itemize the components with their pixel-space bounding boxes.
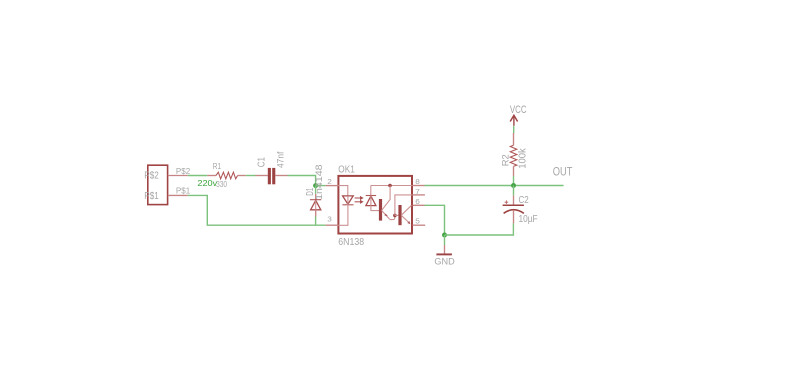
connector pin P$2 lead [168,175,188,177]
resistor R1 [207,172,246,179]
connector pin name P$2 (inside) [144,171,159,182]
capacitor C1 [256,168,288,184]
OK1 internal top rail to pin 8 [371,185,413,187]
OK1 pin 2 lead [326,185,338,187]
svg-text:2: 2 [327,179,332,186]
pin number 8 [415,179,420,186]
pin number 2 [327,179,332,186]
OK1 pin 6 lead [413,204,425,206]
pin number 5 [415,218,420,225]
svg-text:P$2: P$2 [144,171,159,182]
svg-text:47nf: 47nf [276,151,287,168]
svg-text:10µF: 10µF [519,214,538,225]
OK1 internal LED [338,186,354,226]
transistor Q2 [395,205,412,225]
svg-text:OUT: OUT [553,167,573,179]
label C2 [519,195,529,206]
wire P$2 to R1 [188,175,208,177]
pin number 7 [415,189,420,196]
power VCC symbol [510,115,517,126]
wire R2 to OUT node [513,176,515,183]
pin label P$1 [176,186,191,195]
svg-text:5: 5 [415,218,420,225]
label GND [434,256,454,267]
connector pin name P$1 (inside) [144,191,159,202]
label R2 (rotated) [500,154,511,166]
pin number 3 [327,216,332,223]
value 6N138 [338,237,364,248]
svg-text:1n4148: 1n4148 [314,164,324,200]
node B junction dot [442,233,447,238]
label C1 (rotated) [256,157,267,167]
resistor R2 [510,133,517,176]
wire R1 to C1 [246,175,256,177]
value 100k (rotated) [518,148,529,169]
OK1 pin 3 lead [326,224,338,226]
svg-text:GND: GND [434,256,454,267]
OK1 internal base junction dot [393,214,397,218]
node A junction dot [313,183,318,188]
svg-text:7: 7 [415,189,420,196]
svg-text:8: 8 [415,179,420,186]
svg-text:P$1: P$1 [176,186,191,195]
svg-text:R2: R2 [500,154,511,166]
wire node A to OK1 pin2 [316,185,326,187]
svg-text:OK1: OK1 [338,165,355,176]
pin number 6 [415,199,420,206]
pin label P$2 [176,167,191,176]
net label 220v [197,178,218,188]
value 330 [216,179,227,189]
value 10uF [519,214,538,225]
OK1 pin 8 lead [413,185,425,187]
wire P$1 down and along bottom to OK1 pin3 [188,195,326,225]
value 1n4148 (rotated) [314,164,324,200]
label R1 [213,161,221,171]
wire node B to C2 bottom [445,223,514,235]
wire VCC to R2 [513,126,515,133]
svg-text:P$2: P$2 [176,167,191,176]
transistor Q1 [379,186,395,221]
OK1 internal rail junction dot [388,184,392,188]
svg-text:6N138: 6N138 [338,237,364,248]
connector J1 box [148,165,168,204]
OK1 pin 5 lead [413,224,426,226]
wire node C to C2 [513,186,515,196]
wire C1 to node A and down [288,176,316,184]
OK1 internal pin7 line [395,195,412,216]
svg-text:R1: R1 [213,161,221,171]
svg-text:P$1: P$1 [144,191,159,202]
svg-text:3: 3 [327,216,332,223]
optocoupler OK1 box [338,176,412,234]
node C junction dot [511,183,516,188]
wire OK1 pin8 to OUT [425,185,564,187]
svg-text:VCC: VCC [510,104,527,116]
connector pin P$1 lead [168,194,188,196]
value 47nf (rotated) [276,151,287,168]
wire node B down to GND [444,235,446,245]
OK1 light arrows [355,196,364,204]
svg-text:100k: 100k [518,148,529,169]
OK1 internal photodiode [366,186,380,211]
OK1 pin 7 lead [413,194,425,196]
wire D1 to bottom wire [315,217,317,226]
net label OUT [553,167,573,179]
svg-text:220v: 220v [197,178,218,188]
label VCC [510,104,527,116]
svg-text:330: 330 [216,179,227,189]
svg-text:C1: C1 [256,157,267,167]
capacitor C2 (polarized) [503,195,524,223]
wire node A down to D1 [315,186,317,194]
label OK1 [338,165,355,176]
svg-text:6: 6 [415,199,420,206]
diode D1 [310,194,321,217]
ground [436,245,452,254]
svg-text:C2: C2 [519,195,529,206]
wire OK1 pin6 down to gnd node [425,205,445,233]
label D1 (rotated) [305,188,316,196]
